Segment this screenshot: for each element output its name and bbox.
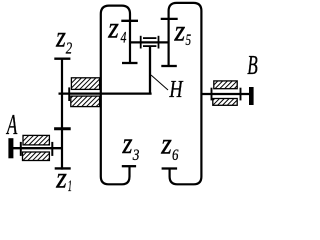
gear z1 bottom cap: [55, 167, 71, 169]
shaft B end bar: [249, 87, 254, 105]
bearing B upper hatched block: [214, 81, 237, 89]
gear z6 cap: [162, 167, 178, 169]
gear z1/z2 common mesh line: [61, 58, 63, 170]
shaft B: [201, 93, 249, 95]
carrier H leader line: [151, 75, 168, 90]
svg-text:z: z: [107, 12, 119, 45]
planet block z5-z6 bracket (right dome): [169, 3, 202, 184]
planet bearing top bar: [143, 37, 156, 39]
svg-text:z: z: [160, 128, 172, 161]
central bearing left flange tick: [68, 87, 70, 101]
planet bearing left flange: [140, 36, 142, 49]
shaft A: [11, 147, 63, 149]
shaft A end bar: [8, 138, 13, 158]
bearing A left flange tick: [20, 142, 22, 156]
svg-text:z: z: [174, 15, 186, 48]
gear z3 cap: [122, 165, 136, 167]
bearing B left flange tick: [211, 88, 213, 101]
svg-text:2: 2: [66, 38, 73, 57]
svg-text:5: 5: [186, 32, 192, 49]
gear z1/z2 mesh cap: [54, 127, 71, 130]
bearing A upper hatched block: [23, 135, 49, 145]
svg-text:B: B: [247, 50, 258, 80]
svg-text:A: A: [6, 110, 18, 141]
bearing B lower hatched block: [213, 99, 237, 106]
bearing B right flange tick: [240, 88, 242, 101]
bearing A lower hatched block: [23, 152, 50, 161]
svg-text:z: z: [55, 21, 66, 54]
carrier H arm: [149, 46, 151, 94]
gear z5 bottom cap: [161, 65, 177, 67]
central bearing upper hatched block: [71, 78, 99, 90]
planet block z4-z3 bracket (left dome): [101, 6, 130, 185]
central bearing lower hatched block: [71, 96, 100, 107]
gear z2 top cap: [54, 58, 70, 60]
gear z4 top cap: [121, 20, 138, 22]
svg-text:z: z: [55, 161, 67, 194]
svg-text:z: z: [122, 127, 133, 160]
planet bearing bottom bar: [143, 45, 156, 47]
svg-text:H: H: [169, 77, 184, 103]
svg-text:1: 1: [68, 178, 72, 195]
carrier shaft (central): [59, 92, 152, 94]
planet bearing right flange: [158, 36, 160, 49]
bearing A right flange tick: [51, 142, 53, 156]
planet axle: [130, 41, 169, 43]
svg-text:6: 6: [172, 147, 178, 164]
gear z5 top cap: [161, 18, 178, 20]
gear z4 bottom cap: [122, 62, 138, 64]
svg-text:4: 4: [121, 30, 127, 47]
svg-text:3: 3: [132, 147, 140, 164]
